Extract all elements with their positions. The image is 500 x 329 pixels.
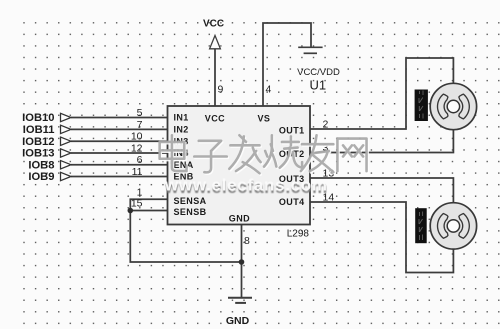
svg-text:OUT4: OUT4	[279, 197, 305, 207]
svg-text:5: 5	[137, 107, 143, 119]
svg-text:IN1: IN1	[174, 113, 189, 123]
svg-text:6: 6	[137, 154, 143, 166]
svg-text:IOB8: IOB8	[28, 159, 54, 171]
svg-text:SENSA: SENSA	[174, 196, 207, 206]
svg-text:12: 12	[131, 143, 143, 155]
svg-text:IOB11: IOB11	[23, 124, 55, 136]
svg-text:11: 11	[132, 166, 143, 178]
svg-text:IN2: IN2	[174, 125, 189, 135]
svg-text:GND: GND	[229, 214, 250, 224]
svg-text:VCC: VCC	[203, 18, 224, 29]
svg-text:VCC: VCC	[205, 114, 225, 124]
svg-text:10: 10	[131, 131, 143, 143]
svg-text:IOB10: IOB10	[22, 112, 54, 124]
svg-text:9: 9	[218, 84, 224, 96]
svg-text:IOB12: IOB12	[22, 136, 54, 148]
svg-text:www.elecfans.com: www.elecfans.com	[164, 175, 328, 194]
svg-text:IOB9: IOB9	[28, 171, 54, 183]
svg-text:GND: GND	[226, 315, 250, 327]
svg-text:2: 2	[323, 119, 329, 131]
svg-text:15: 15	[131, 198, 143, 210]
svg-text:L298: L298	[287, 229, 310, 240]
svg-text:SENSB: SENSB	[174, 207, 207, 217]
svg-text:U1: U1	[309, 78, 326, 93]
svg-text:OUT1: OUT1	[279, 125, 305, 135]
svg-text:7: 7	[137, 119, 143, 131]
svg-text:4: 4	[266, 84, 272, 96]
svg-text:VS: VS	[257, 114, 270, 124]
svg-text:IOB13: IOB13	[22, 148, 54, 160]
svg-text:8: 8	[244, 235, 250, 247]
svg-text:VCC/VDD: VCC/VDD	[297, 67, 340, 78]
svg-text:ENA: ENA	[174, 160, 194, 170]
